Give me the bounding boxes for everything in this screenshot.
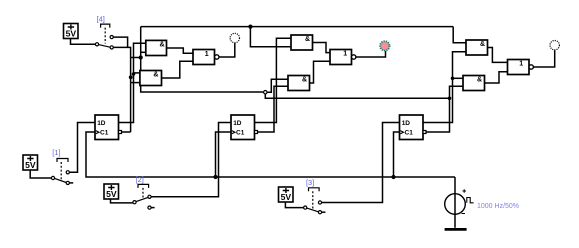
svg-text:[3]: [3]	[306, 178, 314, 187]
svg-text:[2]: [2]	[136, 175, 144, 184]
svg-text:C1: C1	[100, 129, 109, 136]
svg-text:5V: 5V	[281, 192, 292, 202]
svg-text:C1: C1	[236, 129, 245, 136]
svg-text:5V: 5V	[25, 160, 36, 170]
svg-text:&: &	[153, 71, 158, 78]
svg-text:&: &	[305, 36, 310, 43]
svg-text:1000 Hz/50%: 1000 Hz/50%	[477, 203, 519, 210]
svg-text:&: &	[480, 41, 485, 48]
svg-text:1: 1	[343, 51, 347, 58]
svg-text:1: 1	[205, 51, 209, 58]
svg-text:5V: 5V	[66, 29, 77, 39]
svg-text:[4]: [4]	[97, 14, 105, 23]
svg-text:1D: 1D	[402, 120, 411, 127]
svg-text:5V: 5V	[106, 189, 117, 199]
svg-text:&: &	[160, 41, 165, 48]
svg-text:&: &	[302, 76, 307, 83]
svg-text:&: &	[477, 76, 482, 83]
svg-text:[1]: [1]	[52, 148, 60, 157]
svg-text:C1: C1	[405, 129, 414, 136]
svg-text:1D: 1D	[97, 120, 106, 127]
svg-text:1: 1	[519, 61, 523, 68]
svg-text:1D: 1D	[233, 120, 242, 127]
